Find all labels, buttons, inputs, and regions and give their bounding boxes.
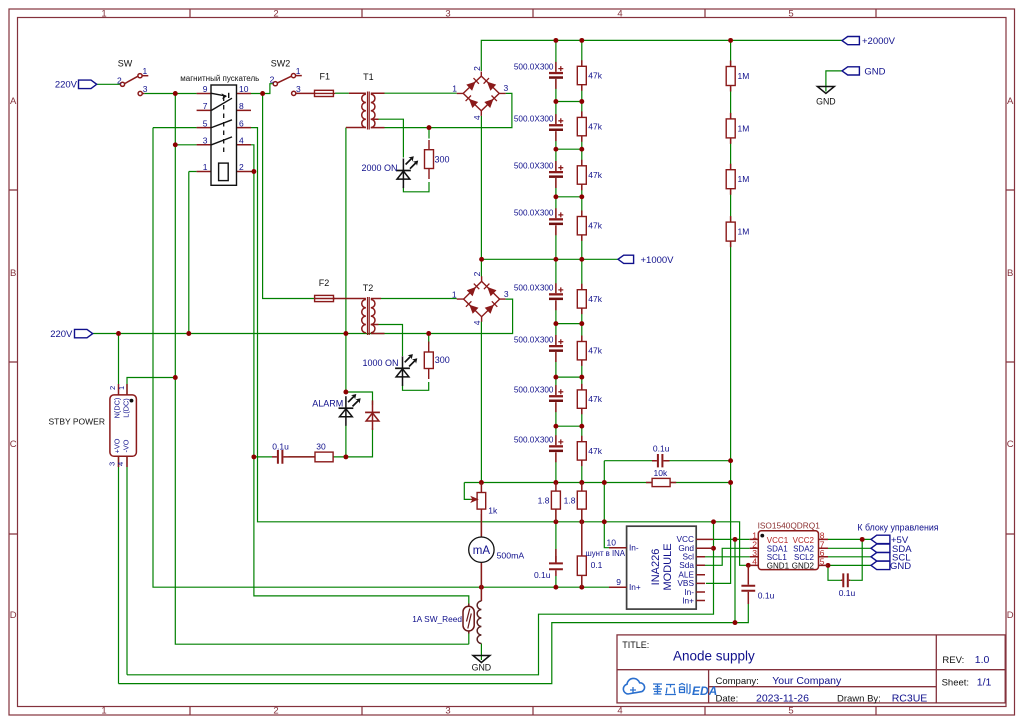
svg-text:1M: 1M <box>738 123 750 133</box>
svg-text:-VO: -VO <box>122 439 131 452</box>
svg-text:GND: GND <box>864 66 885 77</box>
svg-text:3: 3 <box>143 84 148 94</box>
svg-text:1: 1 <box>101 9 106 20</box>
svg-text:ALARM: ALARM <box>312 399 343 409</box>
svg-text:4: 4 <box>752 556 757 566</box>
svg-text:0.1u: 0.1u <box>653 444 670 454</box>
svg-text:C: C <box>1007 439 1014 450</box>
svg-text:0.1u: 0.1u <box>839 588 856 598</box>
svg-text:GND: GND <box>472 663 492 673</box>
svg-text:8: 8 <box>239 101 244 111</box>
svg-text:T1: T1 <box>363 72 374 82</box>
svg-text:GND1: GND1 <box>767 562 790 571</box>
svg-text:1: 1 <box>452 290 457 300</box>
svg-text:500.0X300: 500.0X300 <box>514 436 554 445</box>
svg-text:mA: mA <box>473 545 491 557</box>
svg-text:500.0X300: 500.0X300 <box>514 62 554 71</box>
svg-text:+VO: +VO <box>113 438 122 453</box>
svg-text:1000 ON: 1000 ON <box>362 358 398 368</box>
svg-text:TITLE:: TITLE: <box>622 640 649 650</box>
svg-text:4: 4 <box>472 320 482 325</box>
svg-text:In+: In+ <box>682 595 694 605</box>
svg-text:2: 2 <box>270 75 275 85</box>
svg-text:1M: 1M <box>738 71 750 81</box>
svg-text:5: 5 <box>788 9 793 20</box>
svg-text:220V: 220V <box>50 329 73 340</box>
svg-text:4: 4 <box>472 115 482 120</box>
svg-text:T2: T2 <box>363 283 374 293</box>
svg-text:RC3UE: RC3UE <box>892 693 928 705</box>
svg-text:1A SW_Reed: 1A SW_Reed <box>412 614 462 624</box>
svg-text:5: 5 <box>203 118 208 128</box>
svg-text:47k: 47k <box>588 71 602 81</box>
svg-text:A: A <box>10 96 17 107</box>
svg-text:2: 2 <box>239 162 244 172</box>
svg-text:1M: 1M <box>738 227 750 237</box>
svg-text:500.0X300: 500.0X300 <box>514 335 554 344</box>
svg-text:4: 4 <box>617 9 622 20</box>
svg-text:+2000V: +2000V <box>862 36 896 47</box>
svg-text:500.0X300: 500.0X300 <box>514 161 554 170</box>
svg-text:1M: 1M <box>738 174 750 184</box>
svg-text:3: 3 <box>504 83 509 93</box>
svg-text:MODULE: MODULE <box>662 543 674 590</box>
svg-text:1.8: 1.8 <box>564 495 576 505</box>
svg-text:47k: 47k <box>588 346 602 356</box>
svg-text:2: 2 <box>273 706 278 717</box>
svg-text:STBY POWER: STBY POWER <box>48 416 105 426</box>
svg-text:In+: In+ <box>629 582 641 592</box>
svg-text:магнитный пускатель: магнитный пускатель <box>180 74 259 83</box>
svg-text:300: 300 <box>435 355 450 365</box>
svg-text:47k: 47k <box>588 122 602 132</box>
svg-text:Your Company: Your Company <box>772 675 842 687</box>
svg-text:500.0X300: 500.0X300 <box>514 284 554 293</box>
svg-text:Company:: Company: <box>716 676 759 687</box>
svg-text:INA226: INA226 <box>650 549 662 586</box>
svg-text:К блоку управления: К блоку управления <box>857 523 938 533</box>
svg-text:47k: 47k <box>588 170 602 180</box>
svg-text:1: 1 <box>203 162 208 172</box>
svg-text:5: 5 <box>820 556 825 566</box>
svg-text:Sheet:: Sheet: <box>942 677 969 688</box>
svg-text:30: 30 <box>316 442 326 452</box>
svg-text:9: 9 <box>616 577 621 587</box>
svg-text:F1: F1 <box>320 72 331 82</box>
svg-text:In-: In- <box>629 543 639 553</box>
svg-text:500mA: 500mA <box>497 550 525 560</box>
svg-text:2000 ON: 2000 ON <box>361 163 397 173</box>
svg-text:A: A <box>1007 96 1014 107</box>
svg-text:2023-11-26: 2023-11-26 <box>756 693 809 705</box>
svg-text:6: 6 <box>239 118 244 128</box>
svg-text:GND2: GND2 <box>792 562 815 571</box>
svg-text:1: 1 <box>452 84 457 94</box>
svg-text:GND: GND <box>890 561 911 572</box>
svg-text:0.1: 0.1 <box>591 560 603 570</box>
svg-text:D: D <box>10 610 17 621</box>
svg-text:0.1u: 0.1u <box>758 591 775 601</box>
svg-text:шунт в INA: шунт в INA <box>585 549 625 558</box>
svg-text:1.0: 1.0 <box>975 654 990 666</box>
svg-text:B: B <box>1007 268 1013 279</box>
svg-text:10k: 10k <box>654 468 668 478</box>
svg-text:SW2: SW2 <box>271 58 291 68</box>
svg-text:1: 1 <box>143 66 148 76</box>
svg-text:VCC2: VCC2 <box>793 536 815 545</box>
svg-text:L(DC): L(DC) <box>122 398 131 417</box>
svg-text:9: 9 <box>203 84 208 94</box>
svg-text:0.1u: 0.1u <box>534 570 551 580</box>
svg-text:7: 7 <box>203 101 208 111</box>
svg-text:Anode supply: Anode supply <box>673 648 755 663</box>
svg-text:47k: 47k <box>588 221 602 231</box>
svg-text:10: 10 <box>607 538 617 548</box>
svg-text:Date:: Date: <box>716 694 739 705</box>
svg-text:1.8: 1.8 <box>538 495 550 505</box>
svg-text:GND: GND <box>816 97 836 107</box>
svg-text:1k: 1k <box>488 506 498 516</box>
svg-text:REV:: REV: <box>942 655 964 666</box>
svg-text:3: 3 <box>203 136 208 146</box>
svg-text:C: C <box>10 439 17 450</box>
svg-text:4: 4 <box>116 462 125 466</box>
svg-text:EDA: EDA <box>692 684 717 698</box>
svg-text:2: 2 <box>273 9 278 20</box>
svg-text:B: B <box>10 268 16 279</box>
svg-text:500.0X300: 500.0X300 <box>514 386 554 395</box>
svg-text:500.0X300: 500.0X300 <box>514 115 554 124</box>
svg-text:VCC1: VCC1 <box>767 536 789 545</box>
svg-text:10: 10 <box>239 84 249 94</box>
svg-text:ISO1540QDRQ1: ISO1540QDRQ1 <box>758 521 821 531</box>
svg-text:Drawn By:: Drawn By: <box>837 694 881 705</box>
svg-text:3: 3 <box>504 289 509 299</box>
svg-text:D: D <box>1007 610 1014 621</box>
svg-text:47k: 47k <box>588 446 602 456</box>
svg-text:3: 3 <box>445 9 450 20</box>
svg-text:1: 1 <box>101 706 106 717</box>
svg-text:500.0X300: 500.0X300 <box>514 209 554 218</box>
svg-text:5: 5 <box>788 706 793 717</box>
svg-text:1: 1 <box>117 386 126 390</box>
svg-text:F2: F2 <box>319 278 330 288</box>
svg-text:0.1u: 0.1u <box>272 441 289 451</box>
svg-text:4: 4 <box>617 706 622 717</box>
svg-text:3: 3 <box>296 84 301 94</box>
svg-text:220V: 220V <box>55 80 78 91</box>
svg-text:2: 2 <box>108 386 117 390</box>
svg-text:1/1: 1/1 <box>977 676 992 688</box>
svg-text:+1000V: +1000V <box>641 255 675 266</box>
svg-text:300: 300 <box>435 155 450 165</box>
svg-text:47k: 47k <box>588 394 602 404</box>
svg-text:47k: 47k <box>588 294 602 304</box>
svg-text:SW: SW <box>118 58 133 68</box>
svg-text:4: 4 <box>239 136 244 146</box>
svg-text:2: 2 <box>117 75 122 85</box>
svg-text:N(DC): N(DC) <box>113 398 122 419</box>
svg-text:3: 3 <box>445 706 450 717</box>
svg-text:2: 2 <box>472 271 482 276</box>
svg-text:1: 1 <box>296 66 301 76</box>
svg-text:2: 2 <box>472 66 482 71</box>
